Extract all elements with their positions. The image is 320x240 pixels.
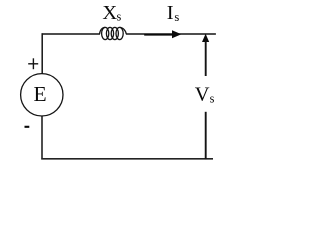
current arrow Is (shaft overlapping wire)	[144, 34, 176, 36]
svg-text:X: X	[102, 2, 117, 24]
voltage arrow Vs (upper segment with arrowhead)	[202, 34, 209, 76]
svg-text:V: V	[195, 84, 210, 106]
svg-text:s: s	[174, 10, 179, 24]
wire bottom	[41, 158, 213, 160]
wire left vertical (source bottom lead)	[41, 116, 43, 160]
svg-text:E: E	[34, 82, 47, 106]
inductor Xs coil	[100, 27, 127, 39]
wire top (inductor to Is arrow and right end)	[126, 33, 216, 35]
voltage source E (circle)	[21, 74, 63, 116]
svg-text:s: s	[117, 9, 122, 23]
wire left vertical (source top lead)	[41, 33, 43, 74]
voltage arrow Vs (lower segment)	[205, 112, 207, 160]
current arrow Is (arrowhead on top wire)	[172, 30, 181, 38]
svg-text:s: s	[210, 91, 215, 105]
polarity plus sign	[28, 58, 38, 69]
wire top (left segment from source to inductor)	[42, 33, 100, 35]
svg-text:I: I	[167, 2, 174, 24]
polarity minus sign	[25, 126, 30, 128]
